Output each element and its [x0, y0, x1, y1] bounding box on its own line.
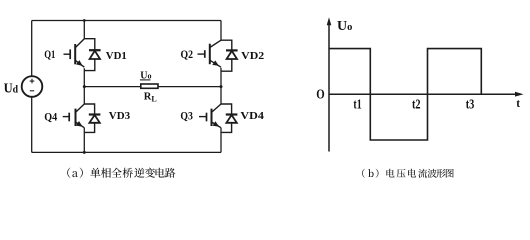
svg-text:VD1: VD1 — [106, 50, 127, 62]
y axis arrowhead — [327, 17, 332, 25]
waveform panel (b): output voltage waveform — [329, 24, 516, 152]
wire: top rail — [32, 20, 221, 22]
svg-text:VD2: VD2 — [241, 50, 265, 62]
svg-text:VD4: VD4 — [240, 110, 264, 122]
x axis arrowhead — [515, 92, 524, 97]
svg-text:t2: t2 — [412, 97, 421, 112]
diode VD2 (antiparallel) — [221, 40, 238, 71]
transistor Q3 (IGBT) — [199, 104, 221, 128]
wire: right leg mid segment (node B) — [220, 68, 222, 104]
wire: left leg mid segment (node A) — [83, 68, 85, 104]
svg-text:O: O — [316, 86, 324, 101]
svg-text:Q2: Q2 — [181, 49, 194, 61]
junction node B (right leg / output rail) — [220, 85, 223, 88]
wire: source branch upper — [31, 21, 33, 77]
svg-text:t: t — [516, 98, 520, 110]
caption (a) 单相全桥逆变电路 — [67, 168, 175, 178]
wire: source branch lower — [31, 97, 33, 152]
transistor Q2 (IGBT) — [198, 40, 222, 67]
circuit panel (a): single-phase full-bridge inverter — [32, 21, 221, 153]
svg-text:Uo: Uo — [337, 19, 352, 34]
wire: right leg top segment — [220, 21, 222, 41]
junction: left leg / bottom rail — [83, 151, 86, 154]
transistor Q4 (IGBT) — [63, 104, 85, 128]
junction: left leg / top rail — [83, 19, 86, 22]
wire: output rail left — [84, 86, 141, 88]
diode VD3 (antiparallel) — [84, 104, 100, 132]
polarity underline for Uo — [140, 79, 151, 81]
square wave Uo trace — [329, 49, 481, 140]
svg-text:Q4: Q4 — [44, 112, 57, 124]
y axis (Uo) — [328, 24, 330, 152]
svg-text:t1: t1 — [353, 97, 361, 112]
transistor Q1 (IGBT) — [64, 39, 85, 67]
resistor RL (load) — [141, 84, 158, 88]
svg-text:Q3: Q3 — [180, 110, 193, 122]
svg-text:VD3: VD3 — [109, 110, 131, 122]
diode VD4 (antiparallel) — [221, 104, 237, 132]
caption (b) 电压电流波形图 — [362, 169, 454, 178]
diode VD1 (antiparallel) — [84, 39, 100, 71]
svg-text:t3: t3 — [466, 97, 475, 112]
junction node A (left leg / output rail) — [83, 85, 86, 88]
wire: bottom rail — [32, 151, 221, 153]
x axis (t) — [329, 93, 516, 95]
wire: left leg top segment — [83, 21, 85, 39]
wire: output rail right — [158, 86, 221, 88]
wire: left leg bottom segment — [83, 128, 85, 153]
voltage source Ud — [22, 76, 43, 97]
wire: right leg bottom segment — [220, 128, 222, 153]
svg-text:Q1: Q1 — [44, 49, 55, 61]
